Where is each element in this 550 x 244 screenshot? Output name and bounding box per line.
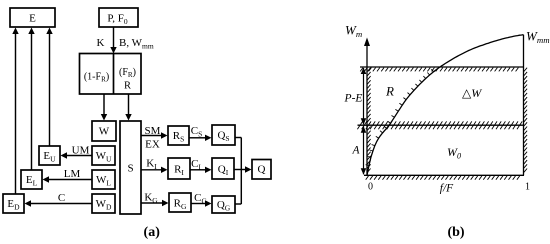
svg-text:(FR): (FR) xyxy=(119,67,136,79)
svg-text:A: A xyxy=(351,145,360,157)
svg-text:R: R xyxy=(124,81,131,92)
svg-text:△W: △W xyxy=(462,86,482,100)
svg-text:P-E: P-E xyxy=(344,93,363,105)
svg-text:(1-FR): (1-FR) xyxy=(84,72,109,84)
svg-text:Q: Q xyxy=(258,164,266,176)
svg-text:LM: LM xyxy=(64,168,81,180)
svg-text:R: R xyxy=(385,84,394,99)
svg-text:1: 1 xyxy=(525,182,530,193)
svg-text:C: C xyxy=(58,192,65,204)
svg-text:E: E xyxy=(29,13,36,25)
svg-text:SM: SM xyxy=(145,125,161,137)
svg-text:S: S xyxy=(127,163,133,175)
svg-text:(a): (a) xyxy=(144,225,161,240)
svg-text:0: 0 xyxy=(368,182,373,193)
svg-text:f/F: f/F xyxy=(440,183,454,195)
svg-text:W: W xyxy=(99,126,110,138)
svg-text:UM: UM xyxy=(72,145,90,157)
svg-text:K: K xyxy=(97,37,105,49)
svg-text:EX: EX xyxy=(145,139,160,151)
svg-text:(b): (b) xyxy=(447,225,464,240)
